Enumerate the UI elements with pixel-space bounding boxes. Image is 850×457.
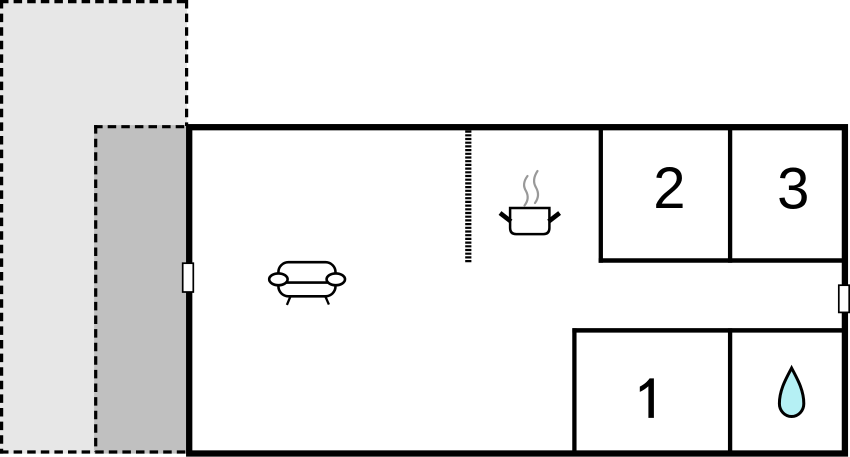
sofa right leg	[326, 297, 329, 305]
wall rooms 2/3 bottom	[599, 258, 845, 263]
door marker right wall	[839, 285, 849, 312]
svg-text:2: 2	[653, 156, 685, 221]
terrace dashed border right (above house)	[185, 0, 188, 126]
cooking pot left handle	[500, 213, 511, 222]
sofa seat line	[283, 281, 331, 284]
wall room1 left	[572, 328, 576, 453]
cooking pot right handle	[549, 213, 560, 222]
sofa left armrest	[269, 273, 287, 285]
kitchen counter dashed line	[465, 131, 471, 263]
sofa body	[278, 262, 335, 296]
svg-text:3: 3	[777, 157, 809, 222]
wall room1 top	[572, 328, 844, 333]
steam right curve	[534, 171, 538, 203]
patio (dark grey dashed area) fill	[94, 125, 189, 454]
wall divider rooms 2/3	[728, 127, 732, 263]
bathroom water droplet	[779, 368, 803, 416]
door marker left wall	[183, 263, 194, 292]
sofa right armrest	[327, 273, 345, 285]
terrace dashed border bottom	[0, 450, 187, 453]
sofa left leg	[287, 297, 290, 305]
terrace (light grey dashed area) fill	[0, 0, 187, 454]
wall divider room1/bathroom	[728, 328, 732, 453]
patio dashed border left	[94, 125, 97, 452]
patio dashed border top	[94, 125, 187, 128]
room number 1	[640, 378, 654, 418]
cooking pot body	[510, 208, 549, 234]
wall room2 left	[599, 127, 603, 263]
outer wall	[189, 127, 845, 453]
terrace dashed border top	[0, 0, 187, 3]
terrace dashed border left	[0, 0, 3, 454]
steam left curve	[524, 176, 528, 206]
